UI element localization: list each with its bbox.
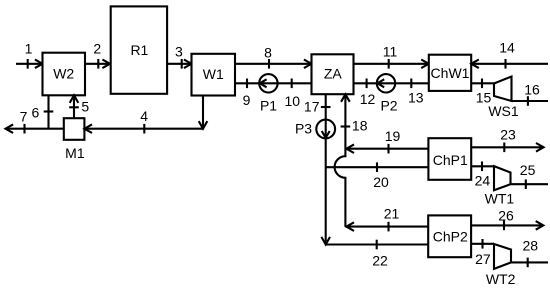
wire stream 17 (ZA outlet down) [325, 94, 327, 244]
svg-text:26: 26 [498, 207, 514, 223]
wire stream 19 [345, 148, 428, 150]
svg-text:ZA: ZA [324, 66, 343, 82]
svg-text:2: 2 [93, 41, 101, 57]
wire stream 2 [85, 63, 110, 65]
turbine WT1 [494, 166, 511, 190]
wire stream 22 [326, 243, 429, 245]
svg-text:P1: P1 [260, 97, 277, 113]
wire stream 1 [16, 63, 43, 65]
pump P1 [259, 74, 277, 92]
svg-text:M1: M1 [65, 145, 85, 161]
box R1 [111, 6, 167, 93]
svg-text:9: 9 [243, 92, 251, 108]
svg-text:5: 5 [81, 99, 89, 115]
svg-text:7: 7 [20, 109, 28, 125]
svg-text:4: 4 [140, 108, 148, 124]
wire stream 6 [47, 95, 49, 128]
svg-text:1: 1 [25, 41, 33, 57]
wire stream 5 [73, 95, 75, 118]
wire stream 23 [471, 146, 543, 148]
svg-text:22: 22 [372, 252, 388, 268]
wire stream 18 (return up to ZA, with hop) [335, 94, 346, 226]
wire stream 8 [235, 63, 312, 65]
svg-text:17: 17 [304, 98, 320, 114]
svg-text:24: 24 [475, 173, 491, 189]
svg-text:27: 27 [475, 251, 491, 267]
wire stream 21 [345, 226, 428, 228]
wire stream 28 [511, 261, 548, 263]
svg-text:16: 16 [524, 82, 540, 98]
wire stream 24 [471, 165, 494, 167]
pump P2 [377, 74, 395, 92]
svg-text:3: 3 [175, 44, 183, 60]
box W2 [43, 53, 86, 96]
wire stream 12-13 [354, 82, 429, 84]
svg-text:ChP2: ChP2 [433, 228, 468, 244]
svg-text:28: 28 [523, 238, 539, 254]
svg-text:10: 10 [285, 93, 301, 109]
box ChW1 [429, 55, 471, 91]
svg-text:WT1: WT1 [485, 190, 515, 206]
wire stream 27 [471, 243, 494, 245]
wire stream 7 [6, 128, 64, 130]
turbine WT2 [494, 244, 511, 269]
svg-text:6: 6 [32, 105, 40, 121]
wire stream 4 [84, 128, 203, 130]
svg-text:WS1: WS1 [488, 103, 519, 119]
svg-text:ChP1: ChP1 [433, 152, 468, 168]
svg-text:25: 25 [520, 162, 536, 178]
fan WS1 [494, 77, 512, 102]
svg-text:18: 18 [352, 118, 368, 134]
pump P3 [316, 120, 335, 139]
svg-text:R1: R1 [130, 42, 148, 58]
wire stream 14 [471, 63, 548, 65]
wire stream 11 [354, 63, 429, 65]
svg-text:21: 21 [384, 205, 400, 221]
svg-text:P3: P3 [295, 121, 312, 137]
wire stream 20 [326, 166, 429, 168]
svg-text:8: 8 [264, 44, 272, 60]
wire stream 15 [471, 82, 494, 84]
box ChP2 [428, 215, 471, 257]
svg-text:13: 13 [408, 90, 424, 106]
wire stream 25 [511, 183, 549, 185]
wire stream 16 [512, 100, 549, 102]
svg-text:12: 12 [360, 91, 376, 107]
svg-text:W1: W1 [203, 66, 224, 82]
wire stream 26 [471, 224, 543, 226]
box W1 [192, 54, 236, 96]
wire stream 3 [167, 63, 192, 65]
svg-text:ChW1: ChW1 [431, 65, 470, 81]
svg-text:WT2: WT2 [486, 271, 516, 287]
box ZA [312, 54, 354, 94]
svg-text:11: 11 [383, 44, 398, 60]
svg-text:14: 14 [499, 40, 515, 56]
svg-text:23: 23 [500, 127, 516, 143]
wire W1 outlet drop [202, 96, 204, 129]
box ChP1 [428, 138, 471, 180]
wire stream 9-10 [235, 82, 312, 84]
svg-text:20: 20 [373, 174, 389, 190]
svg-text:19: 19 [385, 128, 401, 144]
svg-text:W2: W2 [53, 66, 74, 82]
svg-text:P2: P2 [380, 97, 397, 113]
box M1 [64, 118, 85, 140]
